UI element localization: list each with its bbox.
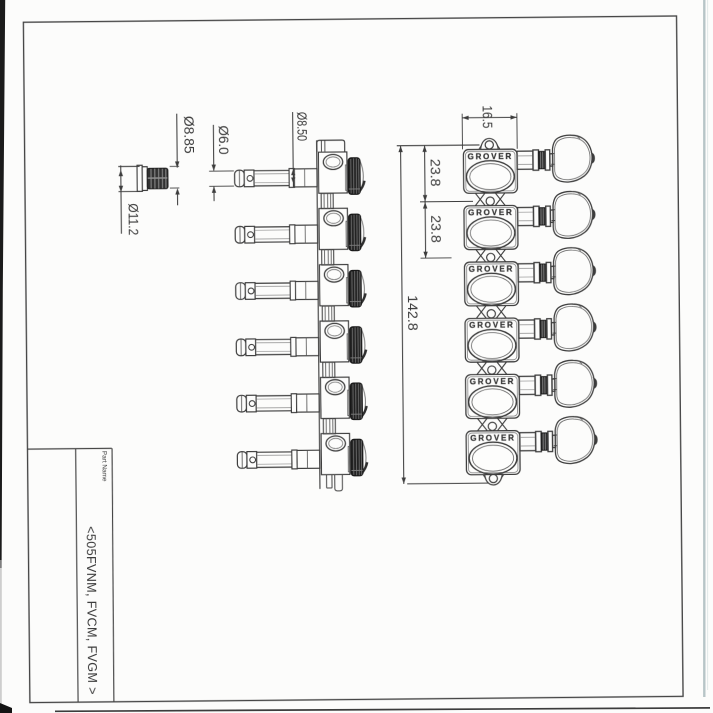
svg-text:Ø6.0: Ø6.0 xyxy=(216,125,231,154)
front tuner unit 4 xyxy=(465,304,596,362)
svg-text:16.5: 16.5 xyxy=(480,105,495,128)
title block right line xyxy=(111,448,114,701)
dimension 23.8 lower xyxy=(423,202,427,208)
paper edge line bottom xyxy=(55,708,710,711)
dimension Ø8.85 xyxy=(169,114,179,206)
front crossed tab 1-2 xyxy=(475,193,505,206)
front tuner unit 6 xyxy=(466,416,597,474)
dimension 16.5 xyxy=(462,113,517,149)
title block top line xyxy=(27,447,111,450)
front crossed tab 5-6 xyxy=(477,418,507,431)
side bottom tab legs xyxy=(327,475,343,491)
side tuner unit 6 xyxy=(237,433,367,477)
side top tab xyxy=(317,140,345,152)
side tab strip 5-6 xyxy=(323,419,335,434)
front top tab xyxy=(479,138,501,149)
title block divider line xyxy=(76,449,78,702)
svg-text:142.8: 142.8 xyxy=(404,295,420,331)
side tab strip 4-5 xyxy=(323,362,335,377)
front tuner unit 5 xyxy=(465,360,596,418)
scanner edge black bar left xyxy=(0,0,5,568)
side tuner unit 1 xyxy=(234,152,364,196)
svg-text:23.8: 23.8 xyxy=(427,215,443,243)
front crossed tab 3-4 xyxy=(476,305,506,318)
side tab strip 1-2 xyxy=(321,193,333,208)
dimension Ø6.0 xyxy=(209,125,235,202)
front crossed tab 4-5 xyxy=(477,362,507,375)
bushing knurled barrel xyxy=(147,168,168,188)
front crossed tab 2-3 xyxy=(476,249,506,262)
dimension 23.8 upper xyxy=(419,145,473,258)
svg-text:23.8: 23.8 xyxy=(426,159,442,187)
scanner corner mark bottom-left xyxy=(0,703,12,713)
side tuner unit 2 xyxy=(235,208,365,252)
front bottom tab xyxy=(483,474,505,485)
side tuner unit 4 xyxy=(236,321,366,365)
front tuner unit 3 xyxy=(464,248,595,306)
side tab strip 3-4 xyxy=(322,306,334,321)
side tuner unit 3 xyxy=(236,264,366,308)
dimension 142.8 xyxy=(397,145,488,484)
svg-text:Ø11.2: Ø11.2 xyxy=(125,203,141,235)
side tuner unit 5 xyxy=(237,377,367,421)
bushing flange washer xyxy=(137,165,142,191)
side tab strip 2-3 xyxy=(322,250,334,265)
front tuner unit 2 xyxy=(464,191,595,249)
mounting plate edge line xyxy=(317,140,320,489)
dimension Ø11.2 xyxy=(118,165,140,234)
svg-text:Part Name: Part Name xyxy=(100,451,107,482)
front tuner unit 1 xyxy=(463,135,594,193)
svg-text:Ø8.50: Ø8.50 xyxy=(294,112,310,142)
dimension Ø8.50 xyxy=(292,112,295,187)
paper edge shadow right xyxy=(703,0,705,697)
svg-text:Ø8.85: Ø8.85 xyxy=(181,116,196,154)
svg-text:<505FVNM, FVCM, FVGM >: <505FVNM, FVCM, FVGM > xyxy=(84,526,100,695)
